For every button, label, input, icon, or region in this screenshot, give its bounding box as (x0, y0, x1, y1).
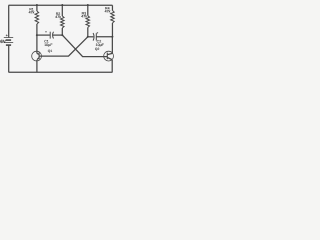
battery B1 6V (4, 38, 13, 46)
resistor R2 zigzag (61, 16, 65, 28)
transistor Q2 collector diagonal (107, 53, 112, 54)
transistor Q1 emitter wire to bottom rail (36, 60, 38, 72)
svg-text:+: + (6, 33, 8, 37)
transistor Q1 base bar (38, 53, 40, 60)
junction dot node D (111, 36, 113, 38)
wire node A to C1 left plate (37, 34, 50, 36)
capacitor C2 plates (92, 33, 95, 41)
junction dot top rail R3 (87, 4, 89, 6)
resistor R3 zigzag (86, 16, 90, 28)
capacitor C1 plates (49, 32, 51, 39)
wire node D down to Q2 collector (111, 37, 113, 54)
wire left branch upper (battery + to top rail) (8, 5, 10, 37)
svg-text:10µF: 10µF (96, 43, 105, 47)
junction dot node A (36, 34, 38, 36)
wire C1 right plate to node B (53, 34, 63, 36)
svg-text:+: + (96, 31, 98, 35)
svg-text:47k: 47k (29, 11, 35, 15)
svg-text:47k: 47k (55, 15, 61, 19)
junction dot node B (61, 34, 63, 36)
transistor Q1 emitter diagonal (37, 58, 39, 60)
wire node C to C2 left plate (88, 36, 94, 38)
resistor R1 wires (36, 5, 38, 11)
wire cross-coupling node C to Q1 base (diagonal) (39, 37, 88, 56)
svg-text:10µF: 10µF (44, 43, 53, 47)
wire bottom 0V rail (9, 71, 113, 73)
svg-text:+: + (45, 30, 47, 34)
svg-text:47k: 47k (105, 10, 111, 14)
wire cross-coupling node B to Q2 base (diagonal) (62, 35, 107, 57)
svg-text:47k: 47k (81, 15, 87, 19)
svg-text:6V: 6V (0, 39, 7, 44)
wire collector Q1 / C1 node (36, 35, 38, 53)
transistor Q1 emitter arrowhead (37, 58, 39, 60)
junction dot top rail R1 (36, 4, 38, 6)
resistor R2 wires (61, 5, 63, 16)
transistor Q2 circle (104, 51, 114, 61)
junction dot top rail R2 (61, 4, 63, 6)
transistor Q1 collector diagonal (37, 53, 39, 54)
wire top supply rail (9, 4, 113, 6)
resistor R1 zigzag (35, 11, 39, 24)
svg-text:Q2: Q2 (95, 47, 100, 51)
svg-text:Q1: Q1 (48, 49, 53, 53)
resistor R4 wires (111, 5, 113, 10)
wire left branch lower (battery - to bottom rail) (8, 45, 10, 72)
transistor Q2 emitter wire to bottom rail (111, 60, 113, 72)
transistor Q2 emitter diagonal (107, 58, 112, 60)
resistor R4 zigzag (111, 11, 115, 24)
junction dot node C (87, 36, 89, 38)
transistor Q2 emitter arrowhead (110, 58, 112, 59)
resistor R3 wires (87, 5, 89, 15)
transistor Q1 circle (32, 51, 42, 61)
wire C2 right plate to node D (96, 36, 112, 38)
transistor Q2 base bar (106, 53, 108, 60)
